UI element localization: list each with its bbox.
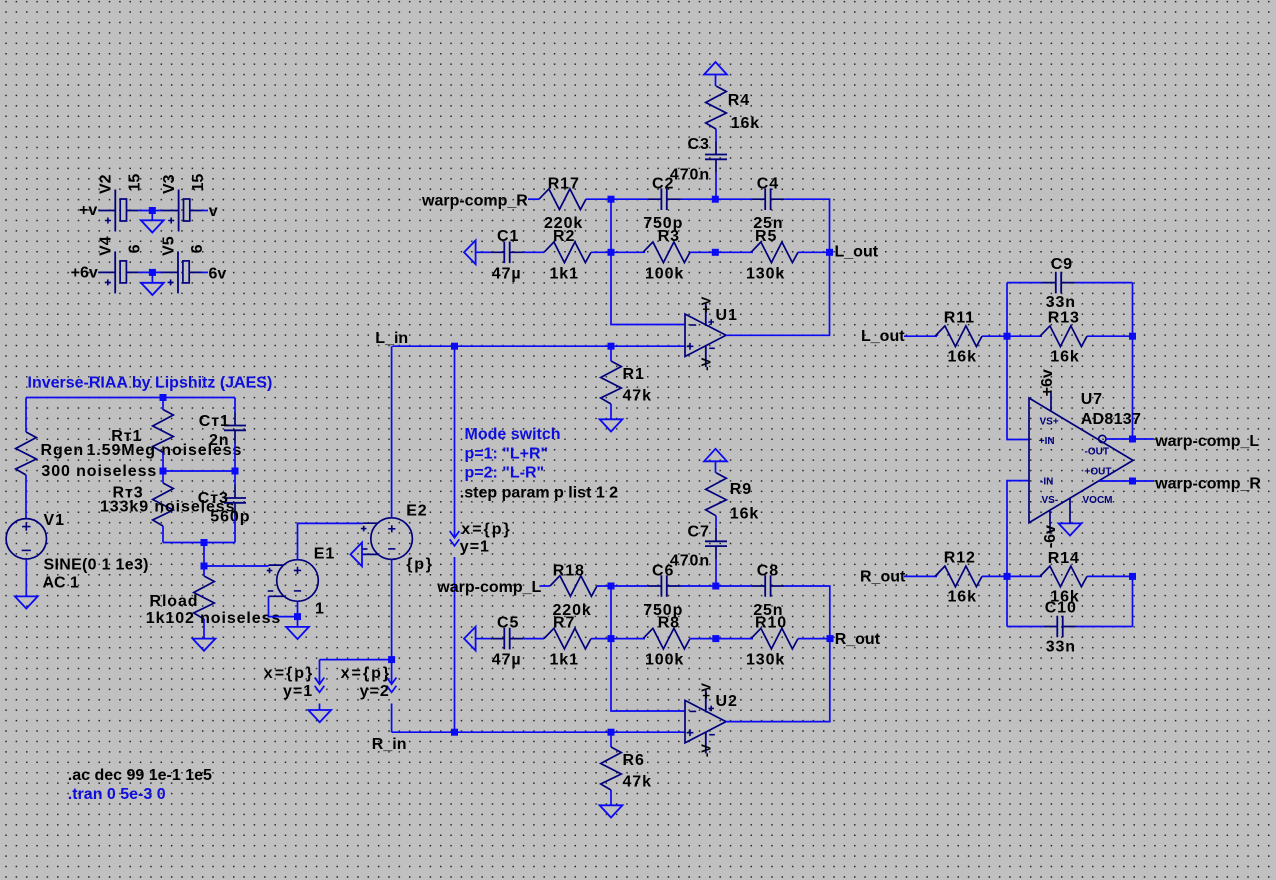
svg-text:U7: U7 [1081,391,1103,408]
wire [523,638,544,640]
voltage source E2 [361,503,434,574]
capacitor C7 [670,523,727,569]
capacitor C3 [670,136,727,184]
svg-text:1k1: 1k1 [550,652,579,669]
capacitor C5 [491,614,524,668]
wire [204,565,269,567]
wire [139,210,162,212]
voltage source E1 [267,546,335,618]
junction [149,207,156,214]
svg-text:R6: R6 [623,752,645,769]
svg-text:+6v: +6v [1039,369,1056,396]
selector jumper x={p} y=1 (to ground) [264,660,392,710]
svg-text:15: 15 [127,174,144,192]
svg-text:AC 1: AC 1 [43,575,80,592]
resistor R18 [550,562,597,619]
svg-text:16k: 16k [730,505,759,522]
junction [1129,573,1136,580]
ground [15,596,38,608]
svg-text:VOCM: VOCM [1083,495,1113,506]
svg-text:p=2: "L-R": p=2: "L-R" [465,465,545,482]
svg-text:47µ: 47µ [492,265,522,282]
svg-text:R12: R12 [944,550,976,567]
junction [160,468,167,475]
svg-text:V2: V2 [98,174,115,194]
svg-text:33n: 33n [1046,294,1076,311]
voltage source V1 [6,512,149,592]
junction [608,729,615,736]
wire [726,639,830,722]
svg-text:.step param p list 1 2: .step param p list 1 2 [460,484,618,501]
junction [451,343,458,350]
resistor R2 [544,228,591,282]
wire [139,271,161,273]
wire [798,638,830,640]
svg-text:p=1: "L+R": p=1: "L+R" [465,445,549,462]
wire [163,470,235,472]
wire [690,251,753,253]
wire [26,397,235,399]
svg-text:16k: 16k [731,115,760,132]
power flag +v above R4 [704,62,727,86]
resistor Rт1 [87,410,243,460]
ground [600,419,623,431]
svg-text:16k: 16k [948,348,977,365]
svg-text:x={p}: x={p} [461,521,511,538]
voltage source V2 [98,174,144,232]
svg-text:C9: C9 [1051,256,1073,273]
wire [611,252,685,324]
svg-text:R3: R3 [658,228,680,245]
op-amp U7 AD8137 [1029,390,1141,533]
svg-text:C7: C7 [688,523,710,540]
wire [1106,438,1154,440]
wire [162,398,164,472]
svg-text:R17: R17 [548,176,580,193]
resistor R5 [746,228,798,282]
svg-text:V5: V5 [160,236,177,256]
resistor R17 [539,176,586,233]
wire L_in [393,345,686,347]
svg-text:2n: 2n [209,432,229,449]
svg-text:1k102 noiseless: 1k102 noiseless [146,610,281,627]
wire [610,199,612,252]
svg-text:C5: C5 [497,614,519,631]
wire [982,335,1042,337]
svg-text:Inverse-RIAA by Lipshitz (JAES: Inverse-RIAA by Lipshitz (JAES) [28,374,273,391]
wire [391,559,393,659]
capacitor C9 [1042,256,1076,311]
svg-text:E1: E1 [314,546,335,563]
wire [539,585,550,587]
ground [193,639,216,651]
wire [151,211,153,221]
wire [151,272,153,282]
wire [611,639,685,711]
wire [391,346,393,518]
wire [476,638,491,640]
wire [202,210,208,212]
wire [681,585,752,587]
svg-text:R2: R2 [553,228,575,245]
svg-text:C3: C3 [688,136,710,153]
svg-text:R11: R11 [944,309,975,326]
resistor R7 [544,614,591,668]
wire [586,198,648,200]
svg-text:47k: 47k [623,774,652,791]
svg-text:470n: 470n [670,167,710,184]
svg-text:16k: 16k [1050,348,1079,365]
capacitor Cт1 [199,412,246,449]
capacitor C4 [752,176,785,233]
wire [715,560,717,586]
svg-text:V3: V3 [161,174,178,194]
svg-text:R8: R8 [658,614,680,631]
svg-text:v: v [209,203,218,220]
svg-text:16k: 16k [948,588,977,605]
svg-text:x={p}: x={p} [264,665,314,682]
svg-text:-6v: -6v [1042,525,1059,548]
wire [784,199,829,252]
svg-text:.tran 0 5e-3 0: .tran 0 5e-3 0 [68,786,166,803]
wire [297,601,299,627]
resistor Rgen [16,432,157,480]
wire [1132,576,1134,626]
svg-text:R5: R5 [755,228,777,245]
svg-text:R1: R1 [623,366,645,383]
svg-text:6v: 6v [209,266,227,283]
svg-text:R13: R13 [1048,309,1080,326]
junction [232,468,239,475]
resistor R11 [935,309,982,365]
junction [1004,333,1011,340]
wire [25,560,27,597]
svg-text:130k: 130k [746,652,785,669]
resistor R4 [706,86,760,132]
svg-text:1: 1 [315,600,325,617]
junction [608,343,615,350]
voltage source V5 [160,236,206,293]
svg-text:C1: C1 [497,228,519,245]
svg-text:300 noiseless: 300 noiseless [41,463,157,480]
wire [715,129,717,141]
junction R_out node [827,635,834,642]
svg-text:Rgen: Rgen [41,442,85,459]
svg-text:6: 6 [126,244,143,253]
op-amp U1 [685,296,738,370]
svg-text:+IN: +IN [1039,436,1055,447]
svg-text:-V: -V [699,744,714,757]
svg-text:VS-: VS- [1042,495,1059,506]
svg-text:warp-comp_R: warp-comp_R [1154,475,1261,492]
svg-text:warp-comp_L: warp-comp_L [1154,433,1259,450]
voltage source V4 [98,236,144,293]
svg-text:100k: 100k [645,652,684,669]
svg-text:+V: +V [699,683,714,700]
wire [715,173,717,199]
wire [234,471,236,543]
ground (rotated) at E2 minus input [351,543,363,567]
op-amp U2 [685,683,738,757]
ground at VOCM [1059,523,1082,535]
wire [528,198,539,200]
ground (rotated) at C5 [464,627,476,651]
wire [203,566,205,639]
wire [523,251,544,253]
svg-text:15: 15 [190,174,207,192]
wire [1007,282,1133,284]
ground (rotated) at C1 [464,240,476,264]
ground [141,220,164,232]
wire R_in [392,731,685,733]
wire [476,251,491,253]
junction [388,656,395,663]
junction [1004,573,1011,580]
svg-text:AD8137: AD8137 [1081,411,1142,428]
wire [163,542,235,544]
svg-text:C8: C8 [757,562,779,579]
junction [608,249,615,256]
svg-text:V4: V4 [98,236,115,256]
junction [1129,436,1136,443]
wire [162,471,164,543]
resistor R3 [643,228,690,282]
svg-text:130k: 130k [746,265,785,282]
svg-text:+V: +V [699,296,714,313]
selector jumper x={p} y=2 (E2 to R_in) [341,660,397,733]
svg-text:R10: R10 [755,614,787,631]
svg-text:U2: U2 [716,693,738,710]
voltage source V3 [161,174,207,232]
ground [308,710,331,722]
svg-text:47k: 47k [623,388,652,405]
resistor R1 [601,346,652,419]
svg-text:C4: C4 [757,176,779,193]
wire [25,398,27,433]
svg-text:100k: 100k [645,265,684,282]
wire [1087,335,1133,337]
wire [591,251,645,253]
svg-text:+OUT: +OUT [1085,466,1112,477]
svg-text:R7: R7 [553,614,575,631]
power flag +v above R9 [704,449,727,473]
svg-text:y=1: y=1 [460,539,490,556]
junction [712,196,719,203]
svg-text:-IN: -IN [1040,476,1053,487]
wire [25,475,27,518]
wire [203,543,205,567]
resistor R12 [935,550,982,606]
svg-text:{p}: {p} [406,556,434,573]
junction [294,613,301,620]
svg-text:L_in: L_in [375,330,408,347]
ground [600,805,623,817]
wire [798,251,830,253]
svg-text:VS+: VS+ [1040,416,1059,427]
svg-text:33n: 33n [1046,639,1076,656]
svg-text:47µ: 47µ [492,652,522,669]
junction [608,196,615,203]
svg-text:+v: +v [79,202,97,219]
resistor Rт3 [100,483,235,526]
svg-text:6: 6 [189,244,206,253]
svg-text:C6: C6 [652,562,674,579]
wire [904,335,937,337]
wire [904,575,937,577]
junction [201,563,208,570]
svg-text:L_out: L_out [861,328,905,345]
svg-text:-V: -V [699,357,714,370]
svg-text:C10: C10 [1045,599,1077,616]
svg-text:warp-comp_L: warp-comp_L [436,579,541,596]
svg-text:y=2: y=2 [360,683,390,700]
resistor R10 [746,614,798,668]
capacitor C10 [1044,599,1077,655]
junction L_out node [826,249,833,256]
ground [286,627,309,639]
junction [1129,478,1136,485]
svg-text:Rload: Rload [150,593,199,610]
wire [269,596,298,616]
wire [298,523,363,559]
junction [451,729,458,736]
resistor R14 [1040,550,1087,605]
wire [1087,575,1133,577]
svg-text:-OUT: -OUT [1085,446,1109,457]
svg-text:Mode switch: Mode switch [465,426,561,443]
wire [1007,283,1029,440]
wire [1132,283,1134,337]
resistor R9 [706,473,760,523]
svg-text:.ac dec 99 1e-1 1e5: .ac dec 99 1e-1 1e5 [68,767,212,784]
wire [202,271,209,273]
svg-text:x={p}: x={p} [341,665,391,682]
junction [160,394,167,401]
junction [201,539,208,546]
wire [234,398,236,472]
svg-text:560p: 560p [210,509,250,526]
capacitor C8 [752,562,785,619]
wire [982,575,1042,577]
wire [1007,481,1029,577]
svg-text:Cт1: Cт1 [199,413,230,430]
svg-text:1k1: 1k1 [550,265,579,282]
wire [1006,576,1008,626]
svg-text:R9: R9 [730,481,752,498]
svg-text:R18: R18 [553,562,585,579]
svg-text:R4: R4 [728,92,750,109]
junction [1129,333,1136,340]
ground [141,283,164,295]
svg-text:warp-comp_R: warp-comp_R [421,192,528,209]
wire [1132,336,1134,439]
wire [610,586,612,639]
svg-text:+6v: +6v [71,265,98,282]
wire [1007,626,1133,628]
junction [712,635,719,642]
svg-text:SINE(0 1 1e3): SINE(0 1 1e3) [44,557,149,574]
svg-text:470n: 470n [670,553,710,570]
capacitor Cт3 [198,484,251,525]
svg-text:V1: V1 [44,512,65,529]
junction [712,249,719,256]
wire [681,198,752,200]
wire [726,252,830,335]
wire [784,586,830,639]
junction [608,583,615,590]
resistor R8 [643,614,690,668]
wire [597,585,648,587]
resistor Rload [146,576,281,627]
wire [690,638,753,640]
svg-text:R_in: R_in [372,736,407,753]
svg-text:U1: U1 [716,307,738,324]
junction [712,583,719,590]
svg-text:C2: C2 [652,176,674,193]
wire [591,638,645,640]
svg-text:R_out: R_out [835,631,881,648]
svg-text:Cт3: Cт3 [198,490,229,507]
junction [149,269,156,276]
junction [608,635,615,642]
wire [715,516,717,528]
resistor R6 [601,732,652,805]
capacitor C6 [643,562,683,619]
wire [1099,480,1154,482]
svg-text:y=1: y=1 [283,683,313,700]
capacitor C2 [643,176,683,233]
resistor R13 [1040,309,1087,365]
svg-text:E2: E2 [406,503,427,520]
svg-text:L_out: L_out [835,243,879,260]
svg-text:R_out: R_out [860,568,906,585]
capacitor C1 [491,228,524,282]
svg-text:R14: R14 [1048,550,1080,567]
selector jumper x={p} y=1 (L_in to R_in) [450,346,512,732]
